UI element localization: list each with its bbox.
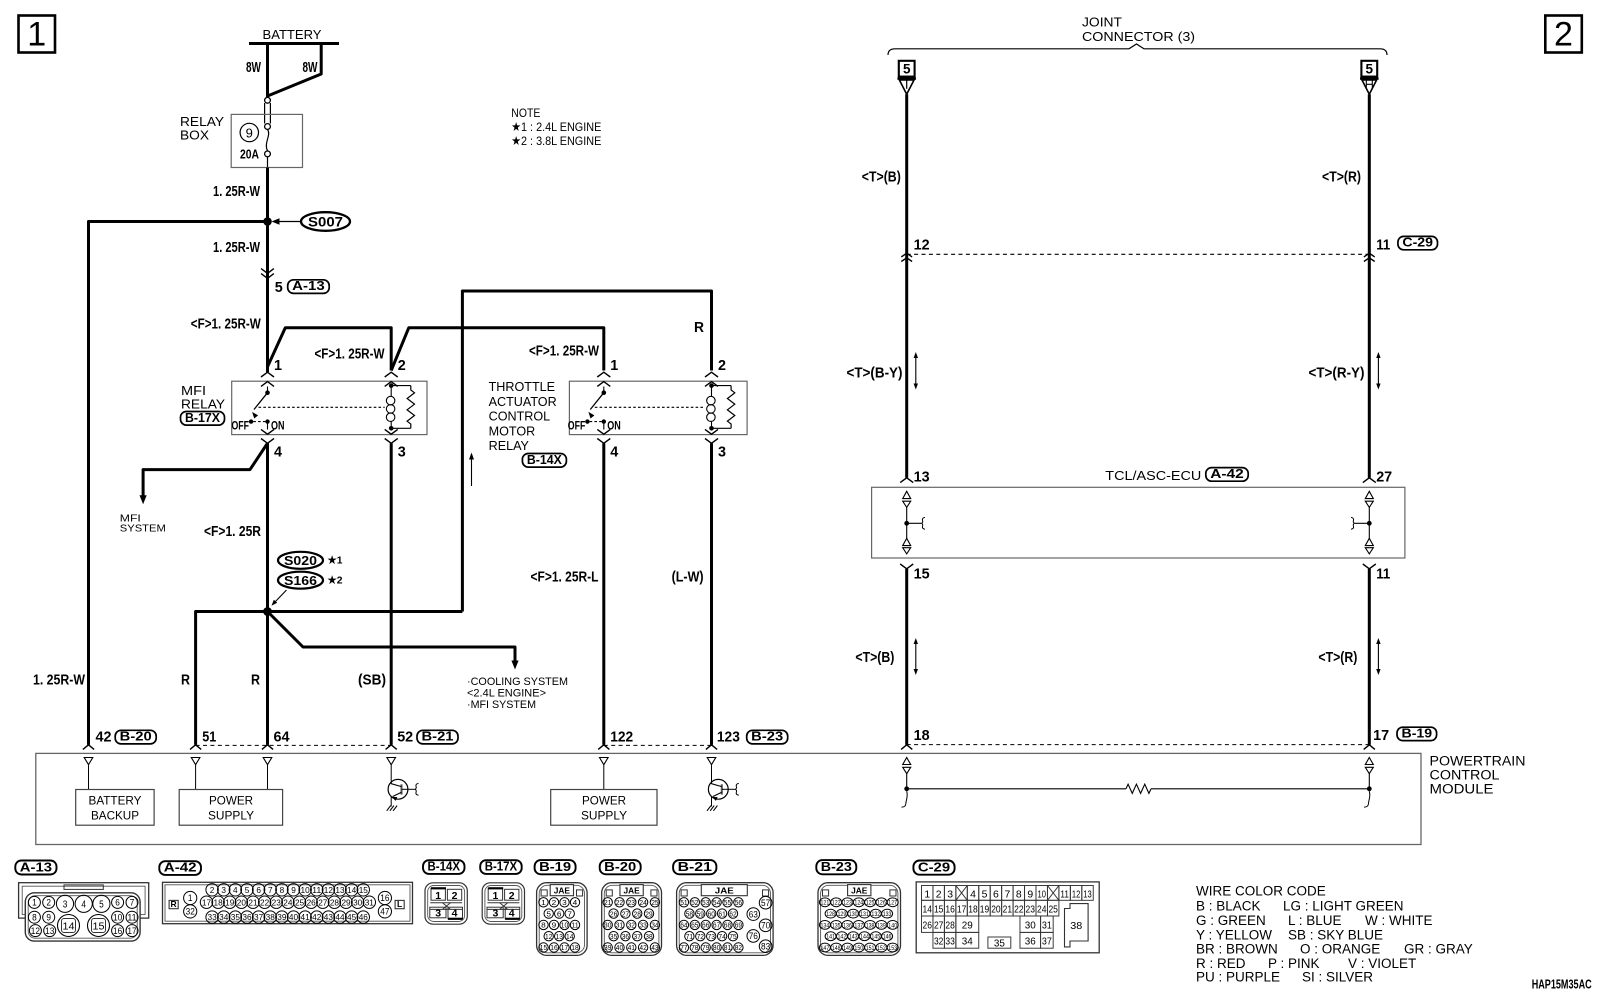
svg-text:ON: ON [607,421,621,433]
svg-text:11: 11 [1376,237,1390,254]
svg-text:POWER: POWER [209,794,253,808]
svg-text:C-29: C-29 [1402,236,1433,250]
inline connector A-13 pin 5 [261,269,274,274]
svg-text:BACKUP: BACKUP [91,809,139,823]
svg-text:13: 13 [914,469,930,486]
svg-text:14: 14 [566,932,573,941]
svg-text:31: 31 [616,921,623,930]
svg-text:BR : BROWN: BR : BROWN [1196,941,1278,956]
svg-text:WIRE COLOR CODE: WIRE COLOR CODE [1196,884,1326,899]
svg-text:25: 25 [1048,904,1058,916]
wire MFI pin1 to pin2 bridge [268,328,392,371]
svg-text:S007: S007 [308,214,343,229]
svg-text:38: 38 [1070,920,1082,932]
powertrain control module box [36,753,1421,844]
relay box outline [569,381,747,434]
wire junction down to 64 [266,612,269,745]
svg-text:W : WHITE: W : WHITE [1365,913,1433,928]
svg-text:SB : SKY BLUE: SB : SKY BLUE [1288,927,1383,942]
svg-text:5: 5 [982,889,988,901]
svg-text:MOTOR: MOTOR [489,424,536,438]
wire R to throttle pin2 [462,291,711,612]
svg-text:9: 9 [246,125,253,140]
svg-text:6: 6 [115,898,120,908]
svg-text:138: 138 [866,922,875,929]
svg-text:9: 9 [1027,889,1033,901]
svg-text:8: 8 [32,912,37,922]
wire MFI pin3 down to 52 [390,443,393,745]
svg-text:74: 74 [718,932,725,941]
branch to MFI system [143,444,267,497]
svg-text:B : BLACK: B : BLACK [1196,899,1261,914]
svg-text:B-23: B-23 [751,730,783,744]
wire MFI pin4 down to splice [266,443,269,611]
svg-text:19: 19 [225,897,234,907]
svg-text:2: 2 [936,889,942,901]
svg-text:PU : PURPLE: PU : PURPLE [1196,969,1280,984]
svg-text:41: 41 [628,943,635,952]
svg-text:1. 25R-W: 1. 25R-W [213,239,261,256]
svg-text:76: 76 [749,931,758,941]
svg-text:2: 2 [398,357,406,374]
svg-text:18: 18 [571,943,578,952]
svg-text:34: 34 [219,912,228,922]
svg-text:5: 5 [546,909,551,918]
connector B-20 pinout [600,860,641,874]
svg-text:44: 44 [335,912,344,922]
battery backup box [88,765,90,790]
output transistor pin 123 [711,765,713,784]
svg-text:8: 8 [541,921,546,930]
svg-text:MODULE: MODULE [1430,782,1494,798]
twisted pair arrow upper left [915,356,917,386]
svg-text:10: 10 [113,912,122,922]
svg-text:4: 4 [81,899,86,910]
svg-text:63: 63 [749,909,758,919]
svg-text:4: 4 [509,908,515,920]
svg-text:34: 34 [651,921,658,930]
svg-text:<F>1. 25R: <F>1. 25R [204,523,261,540]
svg-text:38: 38 [645,932,652,941]
svg-text:2: 2 [718,357,726,374]
svg-text:10: 10 [561,921,568,930]
ground [707,806,711,811]
svg-text:17: 17 [1373,727,1389,744]
svg-text:46: 46 [359,912,368,922]
svg-text:35: 35 [994,938,1005,950]
svg-text:7: 7 [268,885,273,895]
svg-text:<T>(R): <T>(R) [1322,169,1361,186]
svg-text:(L-W): (L-W) [672,569,704,586]
svg-text:ACTUATOR: ACTUATOR [489,395,557,409]
svg-text:6: 6 [993,889,999,901]
svg-text:B-14X: B-14X [428,860,461,874]
svg-text:32: 32 [186,907,195,917]
svg-text:3: 3 [398,444,406,461]
joint connector 5 symbol [1361,61,1377,77]
svg-text:30: 30 [1025,920,1036,932]
svg-text:B-17X: B-17X [185,411,221,425]
svg-text:B-14X: B-14X [527,453,563,467]
svg-text:2: 2 [46,898,51,908]
svg-text:53: 53 [702,898,709,907]
svg-text:8: 8 [280,885,285,895]
fuse 9 20A element [266,129,268,150]
svg-text:18: 18 [968,904,978,916]
svg-text:22: 22 [260,897,269,907]
svg-text:123: 123 [843,900,852,907]
svg-text:3: 3 [435,908,441,920]
svg-text:37: 37 [1042,936,1052,948]
svg-text:35: 35 [231,912,240,922]
svg-text:52: 52 [397,729,413,746]
output transistor pin 52 [390,765,392,784]
splice junction dot [263,607,272,616]
relay switch [603,387,605,393]
wire to battery backup [89,222,268,745]
svg-text:25: 25 [651,898,658,907]
svg-text:75: 75 [729,932,736,941]
svg-text:31: 31 [1042,920,1052,932]
twisted pair arrow lower left [915,642,917,671]
wire throttle pin4 down to 122 [602,443,605,745]
svg-text:134: 134 [821,922,830,929]
fusible link connector [265,97,271,103]
svg-text:23: 23 [272,897,281,907]
svg-text:26: 26 [307,897,316,907]
svg-text:28: 28 [330,897,339,907]
svg-text:54: 54 [713,898,720,907]
svg-text:SYSTEM: SYSTEM [120,524,166,535]
svg-text:39: 39 [277,912,286,922]
svg-text:125: 125 [866,900,875,907]
svg-text:36: 36 [622,932,629,941]
svg-text:13: 13 [335,885,344,895]
svg-text:OFF: OFF [232,421,250,433]
svg-text:9: 9 [46,912,51,922]
svg-text:1: 1 [27,16,46,54]
svg-text:1: 1 [492,890,498,902]
svg-text:7: 7 [1004,889,1010,901]
svg-text:42: 42 [96,729,112,746]
svg-text:BATTERY: BATTERY [263,28,323,42]
svg-text:★1: ★1 [328,555,343,567]
svg-text:21: 21 [1003,904,1013,916]
svg-text:CONNECTOR (3): CONNECTOR (3) [1082,30,1195,44]
inline connector C-29 pins 12 11 [907,253,1370,255]
svg-text:19: 19 [980,904,990,916]
svg-text:6: 6 [256,885,261,895]
svg-text:A-13: A-13 [292,279,325,293]
svg-text:148: 148 [832,945,841,952]
svg-text:3: 3 [718,444,726,461]
svg-text:1. 25R-W: 1. 25R-W [213,183,261,200]
svg-text:ON: ON [271,421,285,433]
wire 8W left [266,44,269,98]
svg-text:25: 25 [295,897,304,907]
power supply box 1 [195,765,197,790]
svg-text:2: 2 [210,885,215,895]
svg-text:67: 67 [713,921,720,930]
svg-text:JAE: JAE [715,886,734,896]
svg-text:10: 10 [301,885,310,895]
svg-text:132: 132 [871,911,880,918]
svg-text:51: 51 [680,898,687,907]
wire page2 right lower [1368,569,1371,745]
svg-text:150: 150 [854,945,863,952]
svg-text:12: 12 [324,885,333,895]
relay linkage dashed [595,406,705,408]
svg-text:A-42: A-42 [1210,467,1243,481]
svg-text:B-20: B-20 [120,730,152,744]
svg-text:11: 11 [1060,889,1069,901]
svg-text:36: 36 [242,912,251,922]
svg-text:137: 137 [854,922,863,929]
svg-text:<T>(B): <T>(B) [862,169,901,186]
svg-text:153: 153 [888,945,897,952]
svg-text:79: 79 [702,943,709,952]
relay coil [389,383,394,388]
svg-text:12: 12 [545,932,552,941]
svg-text:12: 12 [31,926,40,936]
svg-text:27: 27 [1376,469,1392,486]
svg-text:17: 17 [957,904,967,916]
twisted pair arrow lower right [1377,642,1379,671]
svg-text:11: 11 [312,885,321,895]
svg-text:27: 27 [318,897,327,907]
svg-text:57: 57 [761,898,770,908]
svg-text:133: 133 [883,911,892,918]
svg-text:146: 146 [883,934,892,941]
dashed connector lines above PCM [196,744,392,746]
svg-text:<T>(R): <T>(R) [1318,649,1357,666]
C-29 cell 38 [1065,904,1089,947]
svg-text:30: 30 [353,897,362,907]
page number 2 box [1545,16,1582,53]
svg-text:JAE: JAE [851,886,868,896]
relay box outline [232,381,427,434]
PCM pins 18 17 internals [903,758,911,765]
svg-text:16: 16 [945,904,955,916]
svg-text:141: 141 [826,934,835,941]
internal resistor between 18 and 17 [907,788,1126,790]
svg-text:8: 8 [1016,889,1022,901]
svg-text:1: 1 [541,898,546,907]
svg-text:37: 37 [254,912,263,922]
wire T B down page2 left [905,94,908,478]
svg-text:5: 5 [1366,61,1374,76]
wire 1.25R-W from fuse to S007 [266,168,269,222]
svg-text:9: 9 [291,885,296,895]
svg-text:<T>(B): <T>(B) [855,649,894,666]
relay coil [709,383,714,388]
svg-text:JOINT: JOINT [1082,16,1122,30]
relay box RELAY BOX [231,114,302,167]
svg-text:151: 151 [866,945,875,952]
svg-text:20: 20 [991,904,1001,916]
svg-text:CONTROL: CONTROL [489,410,551,424]
svg-text:L : BLUE: L : BLUE [1288,913,1342,928]
svg-text:2: 2 [1554,16,1573,54]
svg-text:78: 78 [691,943,698,952]
svg-text:38: 38 [266,912,275,922]
svg-text:1: 1 [188,893,193,903]
svg-text:29: 29 [341,897,350,907]
svg-text:45: 45 [347,912,356,922]
svg-text:129: 129 [838,911,847,918]
svg-text:123: 123 [717,729,740,746]
svg-text:R: R [694,319,704,336]
joint connector 5 symbol [899,61,915,77]
svg-text:3: 3 [947,889,953,901]
svg-text:BOX: BOX [180,129,210,143]
svg-text:5: 5 [99,899,104,910]
svg-text:68: 68 [724,921,731,930]
svg-text:1: 1 [274,357,282,374]
svg-text:36: 36 [1025,936,1036,948]
relay resistor [712,385,732,387]
svg-text:15: 15 [93,921,105,932]
ground [387,806,391,811]
svg-text:G : GREEN: G : GREEN [1196,913,1266,928]
svg-text:10: 10 [1038,889,1047,901]
svg-text:9: 9 [552,921,557,930]
svg-text:136: 136 [843,922,852,929]
svg-text:21: 21 [248,897,257,907]
power supply box 2 [603,765,605,790]
svg-text:3: 3 [492,908,498,920]
svg-text:TCL/ASC-ECU: TCL/ASC-ECU [1105,468,1201,483]
svg-text:<2.4L ENGINE>: <2.4L ENGINE> [467,688,546,700]
svg-text:★1 : 2.4L ENGINE: ★1 : 2.4L ENGINE [511,120,601,134]
svg-text:121: 121 [821,900,830,907]
svg-text:15: 15 [359,885,368,895]
svg-text:16: 16 [113,926,122,936]
svg-text:S166: S166 [284,573,317,588]
svg-text:<F>1. 25R-L: <F>1. 25R-L [531,569,599,586]
svg-text:4: 4 [274,444,283,461]
svg-text:17: 17 [127,926,136,936]
svg-text:Y : YELLOW: Y : YELLOW [1196,927,1272,942]
svg-text:28: 28 [945,920,955,932]
wire junction to vertical riser [268,610,463,613]
svg-text:LG : LIGHT GREEN: LG : LIGHT GREEN [1283,899,1404,914]
svg-text:13: 13 [556,932,563,941]
svg-text:73: 73 [708,932,715,941]
svg-text:1: 1 [924,889,930,901]
page number 1 box [19,16,56,53]
svg-text:20A: 20A [240,148,259,162]
svg-text:23: 23 [628,898,635,907]
svg-text:80: 80 [713,943,720,952]
svg-text:144: 144 [860,934,869,941]
svg-text:13: 13 [45,926,54,936]
svg-text:HAP15M35AC: HAP15M35AC [1532,977,1592,992]
svg-text:77: 77 [680,943,687,952]
svg-text:27: 27 [622,909,629,918]
connector C-29 pinout [913,861,954,875]
svg-text:A-42: A-42 [164,860,197,875]
wire T R down page2 right [1368,94,1371,478]
svg-text:42: 42 [312,912,321,922]
svg-text:POWER: POWER [582,794,626,808]
svg-text:139: 139 [877,922,886,929]
svg-text:29: 29 [962,920,973,932]
ECU internal pin 13-15 [900,478,913,483]
svg-text:40: 40 [289,912,298,922]
svg-text:16: 16 [550,943,557,952]
svg-text:8W: 8W [246,59,262,76]
svg-text:<F>1. 25R-W: <F>1. 25R-W [315,346,386,363]
svg-text:1: 1 [32,898,37,908]
svg-text:140: 140 [888,922,897,929]
svg-text:142: 142 [838,934,847,941]
svg-text:R: R [251,672,260,689]
svg-text:6: 6 [557,909,562,918]
svg-text:14: 14 [63,921,75,932]
svg-text:60: 60 [708,909,715,918]
svg-text:58: 58 [686,909,693,918]
svg-text:B-19: B-19 [539,859,571,874]
svg-text:83: 83 [761,941,770,951]
svg-text:3: 3 [221,885,226,895]
svg-text:SI : SILVER: SI : SILVER [1302,969,1373,984]
svg-text:THROTTLE: THROTTLE [489,380,555,394]
svg-text:11: 11 [127,912,136,922]
svg-text:24: 24 [639,898,646,907]
connector A-13 pinout [15,861,56,875]
svg-text:61: 61 [718,909,725,918]
connector B-14X pinout [423,860,465,874]
svg-text:<F>1. 25R-W: <F>1. 25R-W [191,316,262,333]
svg-text:C-29: C-29 [918,860,950,875]
svg-text:12: 12 [1072,889,1081,901]
branch to cooling system [268,612,516,662]
relay resistor [391,385,411,387]
svg-text:3: 3 [562,898,567,907]
svg-text:S020: S020 [284,553,317,568]
svg-text:16: 16 [380,893,389,903]
svg-text:7: 7 [130,898,135,908]
svg-text:4: 4 [233,885,238,895]
svg-text:51: 51 [202,729,216,746]
svg-text:11: 11 [1376,566,1390,583]
connector B-23 pinout [816,860,856,874]
svg-text:147: 147 [821,945,830,952]
svg-text:33: 33 [639,921,646,930]
svg-text:R: R [171,899,177,909]
svg-text:5: 5 [245,885,250,895]
svg-text:22: 22 [1014,904,1024,916]
svg-text:145: 145 [871,934,880,941]
svg-text:(SB): (SB) [358,672,386,689]
svg-text:RELAY: RELAY [489,439,530,453]
connector B-19 pinout [535,860,576,874]
svg-text:23: 23 [1026,904,1036,916]
svg-text:135: 135 [832,922,841,929]
svg-text:122: 122 [610,729,633,746]
svg-text:64: 64 [274,729,291,746]
svg-text:126: 126 [877,900,886,907]
svg-text:5: 5 [275,279,283,296]
svg-text:26: 26 [923,920,933,932]
svg-text:·COOLING SYSTEM: ·COOLING SYSTEM [467,676,568,688]
splice S007 [263,217,272,226]
svg-text:32: 32 [628,921,635,930]
svg-text:33: 33 [208,912,217,922]
svg-text:OFF: OFF [568,421,586,433]
svg-text:15: 15 [934,904,944,916]
